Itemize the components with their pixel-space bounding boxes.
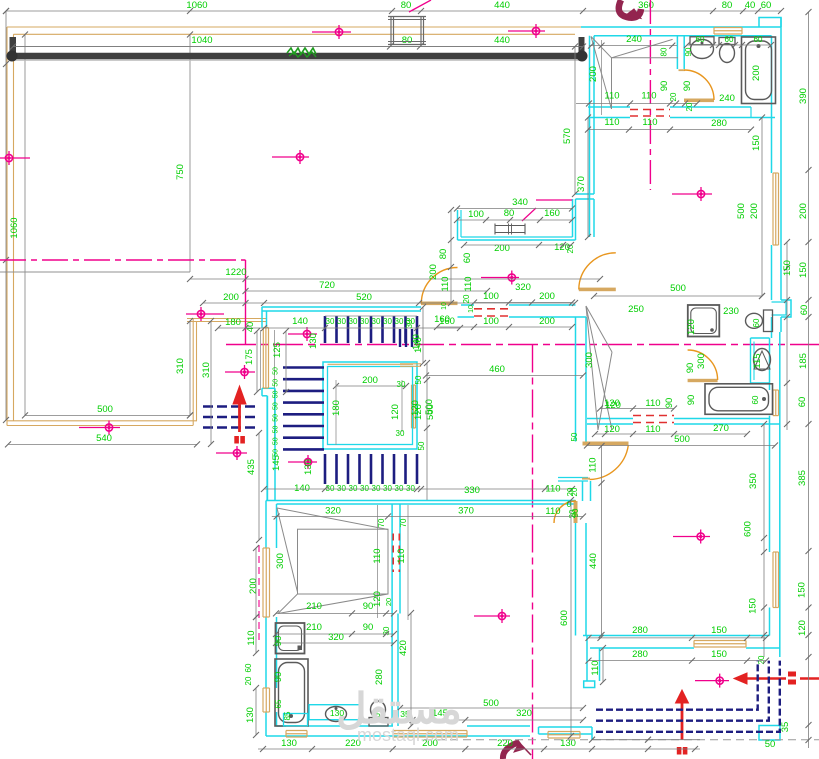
- svg-text:1040: 1040: [191, 35, 212, 46]
- svg-text:10: 10: [468, 305, 475, 313]
- svg-text:520: 520: [356, 292, 372, 303]
- svg-text:150: 150: [711, 625, 727, 636]
- svg-text:100: 100: [468, 209, 484, 220]
- svg-text:60: 60: [761, 0, 772, 11]
- svg-text:30: 30: [337, 484, 346, 493]
- svg-text:200: 200: [223, 292, 239, 303]
- svg-text:90: 90: [685, 363, 696, 374]
- svg-text:500: 500: [670, 283, 686, 294]
- svg-text:30: 30: [372, 484, 381, 493]
- svg-text:350: 350: [748, 473, 759, 489]
- svg-text:30: 30: [405, 319, 414, 328]
- svg-text:60: 60: [799, 305, 810, 316]
- svg-text:20: 20: [244, 676, 253, 685]
- svg-text:90: 90: [682, 81, 693, 92]
- svg-text:500: 500: [674, 434, 690, 445]
- svg-text:200: 200: [588, 66, 599, 82]
- svg-text:130: 130: [281, 738, 297, 749]
- svg-text:110: 110: [642, 117, 657, 128]
- svg-text:35: 35: [780, 722, 791, 733]
- svg-text:280: 280: [632, 649, 648, 660]
- svg-text:370: 370: [458, 506, 474, 517]
- svg-text:30: 30: [396, 429, 405, 438]
- svg-text:110: 110: [645, 424, 660, 435]
- svg-text:30: 30: [337, 317, 346, 326]
- svg-text:30: 30: [349, 317, 358, 326]
- svg-text:80: 80: [722, 0, 733, 11]
- svg-text:90: 90: [363, 622, 374, 633]
- svg-text:30: 30: [395, 484, 404, 493]
- svg-text:50: 50: [273, 437, 280, 445]
- svg-text:130: 130: [245, 707, 256, 723]
- svg-text:100: 100: [483, 291, 499, 302]
- svg-text:370: 370: [576, 176, 587, 192]
- svg-text:200: 200: [749, 203, 760, 219]
- svg-text:50: 50: [273, 379, 280, 387]
- svg-text:50: 50: [765, 739, 776, 750]
- svg-text:320: 320: [515, 282, 531, 293]
- svg-text:180: 180: [225, 317, 241, 328]
- svg-text:50: 50: [273, 426, 280, 434]
- svg-text:200: 200: [539, 291, 555, 302]
- svg-text:20: 20: [757, 655, 766, 664]
- svg-text:280: 280: [632, 625, 648, 636]
- svg-text:90: 90: [363, 601, 374, 612]
- svg-text:20: 20: [384, 598, 393, 606]
- svg-text:330: 330: [464, 485, 480, 496]
- svg-text:500: 500: [736, 203, 747, 219]
- svg-text:85: 85: [283, 711, 292, 720]
- svg-text:150: 150: [748, 598, 759, 614]
- svg-text:50: 50: [273, 414, 280, 422]
- svg-text:120: 120: [797, 620, 808, 636]
- svg-text:80: 80: [438, 249, 449, 260]
- svg-text:110: 110: [645, 398, 660, 409]
- svg-text:200: 200: [751, 65, 762, 81]
- svg-text:90: 90: [686, 395, 697, 406]
- svg-text:110: 110: [545, 484, 560, 495]
- svg-text:20: 20: [462, 294, 471, 303]
- svg-text:300: 300: [275, 553, 286, 569]
- svg-text:210: 210: [306, 622, 322, 633]
- svg-text:440: 440: [494, 0, 510, 11]
- svg-text:80: 80: [401, 0, 412, 11]
- svg-text:90: 90: [684, 47, 693, 56]
- svg-text:270: 270: [713, 423, 729, 434]
- svg-text:60: 60: [751, 395, 760, 404]
- svg-text:750: 750: [175, 164, 186, 180]
- svg-text:30: 30: [383, 484, 392, 493]
- svg-text:50: 50: [273, 402, 280, 410]
- svg-text:340: 340: [512, 197, 528, 208]
- svg-text:210: 210: [306, 601, 322, 612]
- svg-text:115: 115: [752, 353, 763, 368]
- svg-text:385: 385: [797, 470, 808, 486]
- svg-text:90: 90: [571, 508, 580, 517]
- svg-text:1060: 1060: [186, 0, 207, 11]
- svg-text:540: 540: [96, 433, 112, 444]
- svg-text:110: 110: [545, 506, 560, 517]
- svg-text:140: 140: [411, 334, 422, 350]
- svg-text:50: 50: [417, 441, 426, 450]
- svg-text:60: 60: [725, 35, 734, 44]
- svg-text:mostaql.com: mostaql.com: [357, 725, 459, 745]
- svg-text:110: 110: [604, 117, 619, 128]
- svg-text:110: 110: [590, 660, 601, 675]
- svg-text:60: 60: [462, 253, 473, 264]
- svg-text:30: 30: [395, 317, 404, 326]
- svg-text:20: 20: [685, 102, 694, 111]
- svg-text:150: 150: [751, 135, 762, 151]
- svg-text:30: 30: [397, 380, 406, 389]
- svg-text:200: 200: [798, 203, 809, 219]
- svg-text:150: 150: [797, 582, 808, 598]
- svg-text:600: 600: [743, 521, 754, 537]
- svg-text:230: 230: [723, 306, 739, 317]
- svg-text:65: 65: [274, 699, 283, 708]
- svg-text:130: 130: [303, 459, 314, 475]
- svg-text:110: 110: [604, 91, 619, 102]
- svg-text:60: 60: [696, 35, 705, 44]
- svg-text:460: 460: [489, 364, 505, 375]
- svg-text:140: 140: [292, 316, 308, 327]
- svg-text:300: 300: [584, 352, 595, 368]
- svg-text:180: 180: [331, 400, 342, 416]
- svg-text:420: 420: [398, 640, 409, 656]
- svg-text:60: 60: [244, 663, 253, 672]
- svg-text:50: 50: [273, 390, 280, 398]
- svg-text:125: 125: [272, 342, 283, 358]
- svg-text:440: 440: [588, 553, 599, 569]
- svg-text:70: 70: [377, 518, 386, 527]
- svg-text:30: 30: [326, 317, 335, 326]
- svg-text:160: 160: [544, 208, 560, 219]
- svg-text:310: 310: [175, 358, 186, 374]
- svg-text:200: 200: [362, 375, 378, 386]
- svg-text:320: 320: [325, 506, 341, 517]
- svg-text:90: 90: [273, 672, 284, 683]
- svg-text:30: 30: [326, 484, 335, 493]
- svg-text:310: 310: [201, 362, 212, 378]
- svg-text:600: 600: [559, 610, 570, 626]
- svg-text:440: 440: [494, 35, 510, 46]
- svg-text:500: 500: [97, 404, 113, 415]
- svg-text:60: 60: [752, 318, 761, 327]
- svg-text:200: 200: [539, 316, 555, 327]
- svg-text:110: 110: [372, 548, 383, 563]
- svg-text:280: 280: [711, 118, 727, 129]
- svg-text:30: 30: [360, 317, 369, 326]
- svg-text:280: 280: [374, 669, 385, 685]
- svg-text:70: 70: [399, 518, 408, 527]
- svg-text:60: 60: [797, 397, 808, 408]
- svg-text:30: 30: [360, 484, 369, 493]
- svg-text:50: 50: [414, 375, 423, 384]
- svg-text:240: 240: [719, 93, 735, 104]
- svg-text:570: 570: [562, 128, 573, 144]
- svg-text:60: 60: [754, 35, 763, 44]
- svg-text:20: 20: [669, 92, 678, 101]
- svg-text:320: 320: [328, 632, 344, 643]
- svg-text:90: 90: [273, 636, 284, 647]
- svg-text:500: 500: [483, 698, 499, 709]
- svg-text:120: 120: [604, 398, 620, 409]
- svg-text:50: 50: [273, 367, 280, 375]
- svg-text:1220: 1220: [225, 267, 246, 278]
- svg-text:120: 120: [604, 424, 620, 435]
- svg-text:90: 90: [659, 81, 670, 92]
- svg-text:110: 110: [440, 276, 451, 291]
- svg-text:50: 50: [570, 432, 579, 441]
- svg-text:130: 130: [308, 333, 319, 349]
- svg-text:80: 80: [660, 47, 669, 56]
- svg-text:110: 110: [396, 548, 407, 563]
- svg-text:390: 390: [798, 88, 809, 104]
- svg-text:30: 30: [383, 317, 392, 326]
- svg-text:100: 100: [483, 316, 499, 327]
- svg-text:320: 320: [516, 708, 532, 719]
- svg-text:10: 10: [441, 302, 448, 310]
- svg-text:500: 500: [424, 399, 435, 415]
- svg-text:300: 300: [696, 353, 707, 369]
- svg-text:720: 720: [319, 280, 335, 291]
- svg-text:120: 120: [686, 319, 697, 335]
- svg-text:120: 120: [390, 404, 401, 420]
- svg-text:110: 110: [463, 276, 474, 291]
- svg-text:120: 120: [410, 400, 421, 416]
- svg-text:145: 145: [271, 455, 282, 471]
- svg-text:140: 140: [294, 483, 310, 494]
- svg-text:30: 30: [349, 484, 358, 493]
- svg-text:30: 30: [372, 317, 381, 326]
- svg-text:110: 110: [641, 91, 656, 102]
- svg-text:150: 150: [782, 260, 793, 276]
- svg-text:40: 40: [745, 0, 756, 11]
- svg-text:110: 110: [246, 630, 257, 645]
- svg-text:120: 120: [372, 591, 383, 607]
- svg-text:200: 200: [248, 578, 259, 594]
- svg-text:185: 185: [798, 353, 809, 369]
- svg-text:20: 20: [570, 487, 579, 496]
- svg-text:150: 150: [711, 649, 727, 660]
- svg-text:110: 110: [588, 457, 599, 472]
- svg-text:200: 200: [428, 264, 439, 280]
- svg-text:160: 160: [434, 314, 450, 325]
- svg-text:250: 250: [628, 304, 644, 315]
- svg-text:435: 435: [246, 459, 257, 475]
- svg-text:240: 240: [626, 34, 642, 45]
- svg-text:1060: 1060: [9, 217, 20, 238]
- svg-text:150: 150: [798, 262, 809, 278]
- svg-text:175: 175: [244, 349, 255, 365]
- svg-text:90: 90: [664, 398, 675, 409]
